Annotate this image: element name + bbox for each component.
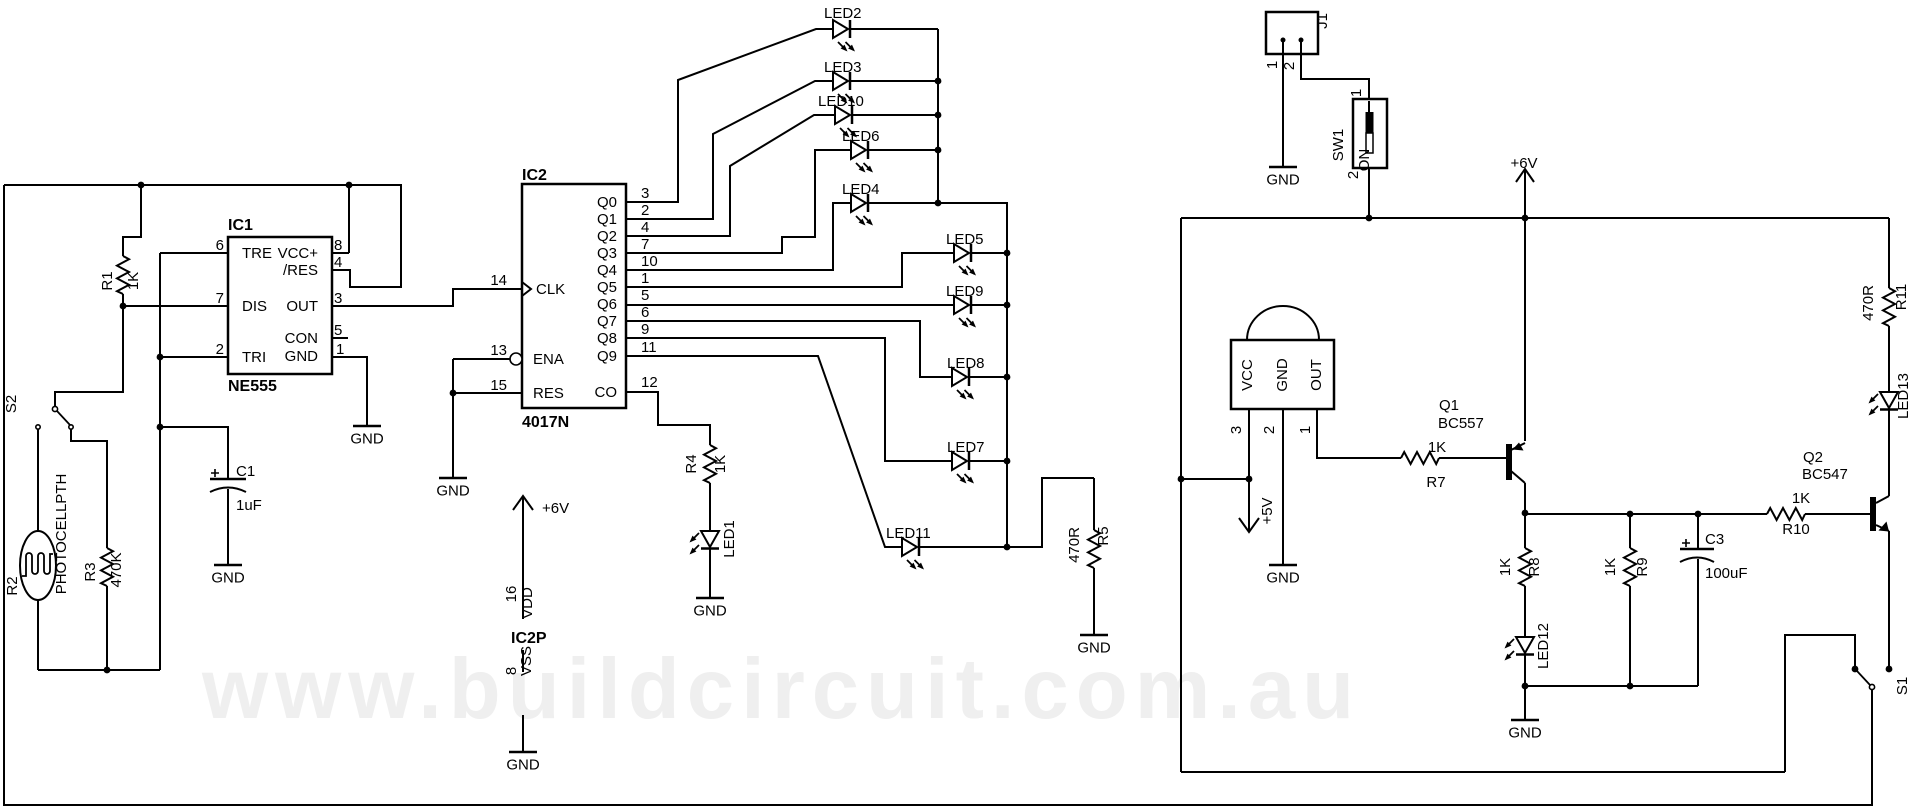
svg-text:1: 1: [1264, 61, 1281, 69]
svg-text:14: 14: [490, 272, 507, 289]
svg-text:Q4: Q4: [597, 262, 617, 279]
svg-text:Q1: Q1: [597, 211, 617, 228]
svg-text:SW1: SW1: [1330, 129, 1347, 162]
svg-text:C1: C1: [236, 463, 255, 480]
svg-text:OUT: OUT: [286, 298, 318, 315]
svg-text:GND: GND: [1266, 172, 1300, 189]
svg-text:Q9: Q9: [597, 348, 617, 365]
svg-text:CO: CO: [595, 384, 618, 401]
svg-text:GND: GND: [1266, 570, 1300, 587]
svg-text:J1: J1: [1314, 13, 1331, 29]
svg-text:+6V: +6V: [1510, 155, 1537, 172]
svg-text:CLK: CLK: [536, 281, 565, 298]
svg-text:7: 7: [641, 236, 649, 253]
svg-text:3: 3: [1228, 426, 1245, 434]
svg-text:6: 6: [216, 237, 224, 254]
svg-text:1: 1: [1297, 426, 1314, 434]
svg-text:LED13: LED13: [1895, 373, 1912, 419]
svg-text:LED2: LED2: [824, 5, 862, 22]
svg-text:R7: R7: [1426, 474, 1445, 491]
svg-text:CON: CON: [285, 330, 318, 347]
svg-text:R5: R5: [1095, 526, 1112, 545]
svg-text:9: 9: [641, 321, 649, 338]
svg-text:2: 2: [1261, 426, 1278, 434]
svg-text:4: 4: [334, 254, 342, 271]
svg-text:R2: R2: [4, 576, 21, 595]
svg-text:+6V: +6V: [542, 500, 569, 517]
svg-text:TRI: TRI: [242, 349, 266, 366]
svg-text:LED1: LED1: [721, 520, 738, 558]
svg-text:VCC: VCC: [1239, 359, 1256, 391]
svg-text:8: 8: [503, 667, 520, 675]
svg-text:ON: ON: [1356, 149, 1373, 172]
svg-text:+5V: +5V: [1259, 497, 1276, 524]
svg-text:4017N: 4017N: [522, 414, 569, 431]
svg-text:LED9: LED9: [946, 283, 984, 300]
svg-text:GND: GND: [1274, 358, 1291, 392]
svg-text:1K: 1K: [125, 272, 142, 290]
svg-text:BC547: BC547: [1802, 466, 1848, 483]
svg-text:8: 8: [334, 237, 342, 254]
svg-text:7: 7: [216, 290, 224, 307]
svg-text:1K: 1K: [1428, 439, 1446, 456]
svg-text:VCC+: VCC+: [278, 245, 319, 262]
svg-text:1K: 1K: [1497, 558, 1514, 576]
svg-text:Q2: Q2: [1803, 449, 1823, 466]
svg-text:/RES: /RES: [283, 262, 318, 279]
svg-text:LED10: LED10: [818, 93, 864, 110]
svg-text:Q2: Q2: [597, 228, 617, 245]
svg-text:IC2P: IC2P: [511, 630, 547, 647]
svg-text:R10: R10: [1782, 521, 1810, 538]
svg-text:IC2: IC2: [522, 167, 547, 184]
svg-text:R3: R3: [82, 562, 99, 581]
svg-text:470K: 470K: [108, 552, 125, 587]
svg-text:VDD: VDD: [519, 587, 536, 619]
svg-text:2: 2: [1345, 171, 1362, 179]
svg-text:11: 11: [641, 339, 657, 356]
svg-text:LED6: LED6: [842, 128, 880, 145]
svg-text:GND: GND: [285, 348, 319, 365]
svg-text:DIS: DIS: [242, 298, 267, 315]
svg-text:RES: RES: [533, 385, 564, 402]
svg-text:R9: R9: [1634, 557, 1651, 576]
svg-text:R8: R8: [1526, 557, 1543, 576]
svg-text:PHOTOCELLPTH: PHOTOCELLPTH: [53, 474, 70, 595]
svg-text:R4: R4: [683, 454, 700, 473]
svg-text:100uF: 100uF: [1705, 565, 1748, 582]
svg-text:3: 3: [641, 185, 649, 202]
svg-text:1: 1: [336, 341, 344, 358]
svg-text:5: 5: [641, 287, 649, 304]
svg-text:GND: GND: [436, 483, 470, 500]
svg-text:LED12: LED12: [1535, 623, 1552, 669]
svg-text:GND: GND: [211, 570, 245, 587]
svg-text:LED8: LED8: [947, 355, 985, 372]
svg-text:NE555: NE555: [228, 378, 277, 395]
svg-text:OUT: OUT: [1308, 359, 1325, 391]
svg-text:R11: R11: [1893, 284, 1910, 310]
svg-text:LED4: LED4: [842, 181, 880, 198]
svg-text:LED11: LED11: [886, 525, 931, 542]
svg-text:1: 1: [641, 270, 649, 287]
svg-text:Q1: Q1: [1439, 397, 1459, 414]
svg-text:GND: GND: [506, 757, 540, 774]
svg-text:Q8: Q8: [597, 330, 617, 347]
svg-text:www.buildcircuit.com.au: www.buildcircuit.com.au: [201, 642, 1361, 737]
svg-text:LED3: LED3: [824, 59, 862, 76]
svg-text:6: 6: [641, 304, 649, 321]
svg-text:GND: GND: [1077, 640, 1111, 657]
svg-text:1K: 1K: [1602, 558, 1619, 576]
svg-text:GND: GND: [693, 603, 727, 620]
svg-text:TRE: TRE: [242, 245, 272, 262]
svg-text:12: 12: [641, 374, 658, 391]
svg-text:GND: GND: [1508, 725, 1542, 742]
svg-text:Q6: Q6: [597, 296, 617, 313]
svg-text:470R: 470R: [1860, 285, 1877, 321]
svg-text:1uF: 1uF: [236, 497, 262, 514]
svg-text:10: 10: [641, 253, 658, 270]
svg-text:16: 16: [503, 586, 520, 603]
svg-text:R1: R1: [99, 271, 116, 290]
svg-text:1K: 1K: [712, 455, 729, 473]
svg-text:2: 2: [216, 341, 224, 358]
svg-text:470R: 470R: [1066, 527, 1083, 563]
svg-text:1K: 1K: [1792, 490, 1810, 507]
svg-text:5: 5: [334, 322, 342, 339]
svg-text:13: 13: [490, 342, 507, 359]
svg-text:3: 3: [334, 290, 342, 307]
svg-text:GND: GND: [350, 431, 384, 448]
svg-text:4: 4: [641, 219, 649, 236]
svg-text:Q3: Q3: [597, 245, 617, 262]
svg-text:S1: S1: [1894, 677, 1911, 695]
svg-text:1: 1: [1348, 89, 1365, 97]
svg-text:C3: C3: [1705, 531, 1724, 548]
svg-text:S2: S2: [3, 395, 20, 413]
svg-text:ENA: ENA: [533, 351, 564, 368]
svg-text:VSS: VSS: [518, 646, 535, 676]
svg-text:LED5: LED5: [946, 231, 984, 248]
svg-text:IC1: IC1: [228, 217, 253, 234]
svg-text:Q7: Q7: [597, 313, 617, 330]
svg-text:2: 2: [641, 202, 649, 219]
svg-text:BC557: BC557: [1438, 415, 1484, 432]
svg-text:Q0: Q0: [597, 194, 617, 211]
svg-text:LED7: LED7: [947, 439, 985, 456]
svg-text:15: 15: [490, 377, 507, 394]
svg-text:Q5: Q5: [597, 279, 617, 296]
